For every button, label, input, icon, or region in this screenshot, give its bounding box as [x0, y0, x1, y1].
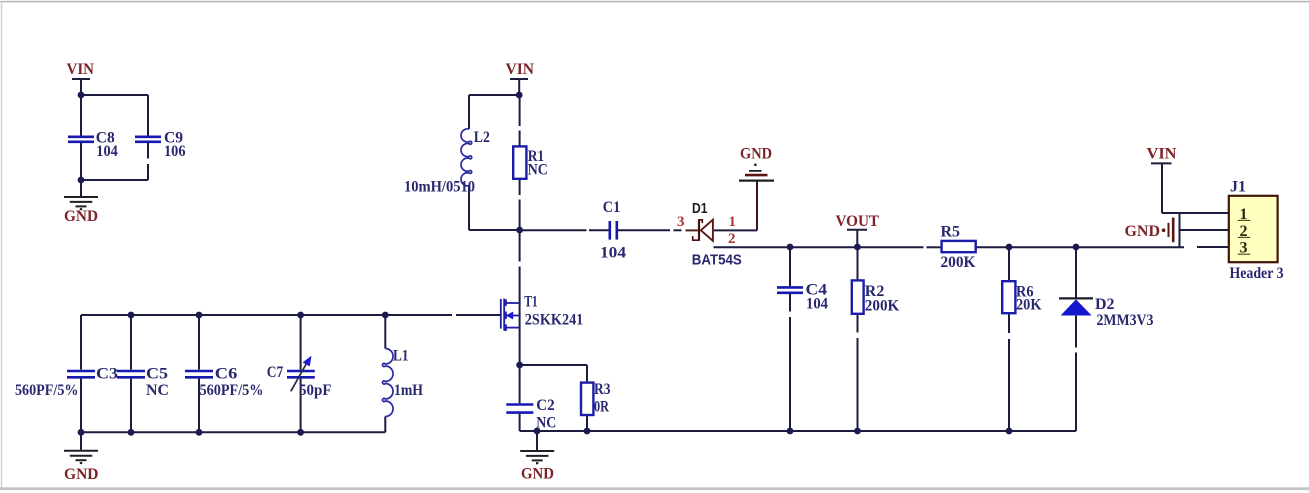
svg-text:J1: J1	[1230, 179, 1246, 196]
svg-text:BAT54S: BAT54S	[692, 252, 742, 269]
svg-text:GND: GND	[521, 466, 554, 483]
svg-text:2: 2	[728, 231, 736, 247]
svg-text:C1: C1	[603, 199, 621, 216]
svg-text:T1: T1	[524, 293, 538, 310]
svg-text:560PF/5%: 560PF/5%	[15, 382, 79, 399]
svg-text:NC: NC	[536, 415, 556, 432]
svg-text:Header 3: Header 3	[1230, 265, 1284, 282]
svg-text:VIN: VIN	[1147, 146, 1177, 163]
svg-text:C5: C5	[146, 366, 168, 383]
svg-text:104: 104	[806, 296, 828, 313]
svg-text:0R: 0R	[594, 399, 609, 416]
svg-text:NC: NC	[528, 162, 548, 179]
svg-text:1mH: 1mH	[394, 382, 423, 399]
svg-text:R3: R3	[594, 381, 611, 398]
svg-text:104: 104	[96, 143, 118, 160]
svg-text:1: 1	[729, 214, 737, 230]
svg-text:106: 106	[164, 143, 186, 160]
svg-text:50pF: 50pF	[299, 382, 332, 399]
svg-text:L1: L1	[393, 348, 409, 365]
svg-text:NC: NC	[146, 382, 169, 399]
svg-text:D2: D2	[1095, 296, 1115, 313]
svg-text:R5: R5	[941, 224, 961, 241]
svg-text:VOUT: VOUT	[836, 213, 880, 230]
svg-text:2MM3V3: 2MM3V3	[1097, 312, 1154, 329]
svg-text:GND: GND	[64, 208, 98, 225]
svg-text:104: 104	[600, 244, 626, 261]
svg-text:GND: GND	[740, 145, 772, 162]
svg-text:VIN: VIN	[506, 61, 535, 78]
svg-text:C2: C2	[536, 397, 555, 414]
svg-text:560PF/5%: 560PF/5%	[200, 382, 264, 399]
svg-text:C7: C7	[267, 364, 284, 381]
svg-text:10mH/0510: 10mH/0510	[404, 179, 475, 196]
svg-text:GND: GND	[64, 466, 99, 483]
svg-text:GND: GND	[1125, 223, 1161, 240]
svg-text:L2: L2	[474, 129, 490, 146]
svg-text:20K: 20K	[1016, 297, 1042, 314]
svg-text:2SKK241: 2SKK241	[525, 311, 584, 328]
svg-text:200K: 200K	[865, 298, 900, 315]
svg-text:VIN: VIN	[67, 61, 95, 78]
svg-text:C3: C3	[96, 366, 118, 383]
svg-text:3: 3	[677, 214, 685, 230]
svg-text:C6: C6	[215, 366, 238, 383]
svg-text:200K: 200K	[941, 254, 977, 271]
svg-text:D1: D1	[692, 200, 708, 217]
